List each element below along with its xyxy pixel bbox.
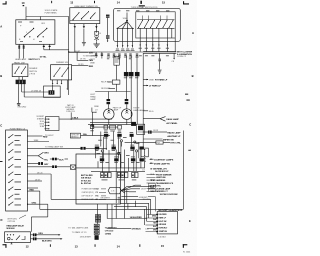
right row connector	[143, 131, 148, 133]
grid dash left	[0, 160, 3, 163]
svg-text:18 TAN PANEL LPS: 18 TAN PANEL LPS	[150, 167, 167, 170]
svg-text:HDLP RLY: HDLP RLY	[101, 82, 111, 84]
svg-text:TURN SIGNAL SWITCH POD: TURN SIGNAL SWITCH POD	[131, 6, 158, 9]
svg-text:OPTION: OPTION	[7, 221, 15, 223]
label instrument cluster	[177, 51, 193, 58]
blob right of bus	[131, 122, 135, 125]
grid tick top	[50, 1, 53, 3]
wire bend right	[22, 92, 61, 97]
PDC hex connector	[108, 187, 121, 194]
extra micro labels	[95, 138, 134, 163]
svg-text:13: 13	[70, 0, 73, 4]
PDC box	[76, 154, 120, 204]
security module label	[158, 209, 182, 212]
labels left of C4	[108, 81, 113, 83]
long bottom wire 2	[107, 227, 131, 229]
switch SW4	[70, 8, 100, 24]
grid tick top	[94, 1, 95, 3]
svg-text:18VT: 18VT	[90, 59, 96, 61]
row with breaker label box	[45, 135, 54, 137]
svg-text:ORG: ORG	[44, 152, 49, 154]
svg-text:FRONT MARKER: FRONT MARKER	[156, 173, 172, 176]
svg-text:18 BK/WT: 18 BK/WT	[37, 118, 44, 120]
wire to ground G1	[83, 29, 85, 43]
svg-text:HDLP SW: HDLP SW	[159, 221, 167, 223]
connector box C112	[44, 86, 61, 97]
cluster bottom connector group 1	[101, 173, 112, 178]
svg-text:18RD: 18RD	[90, 56, 96, 58]
connector pair right lamp	[125, 99, 129, 104]
headlamp delay module U1	[5, 232, 31, 243]
ground G1	[82, 42, 86, 44]
wire end bars	[17, 103, 21, 105]
lamp feed wire	[95, 91, 130, 93]
connector pair left lamp	[107, 99, 111, 104]
svg-text:C3: C3	[96, 192, 98, 194]
crossing connector symbol	[94, 37, 98, 40]
fp row 9	[27, 180, 42, 182]
U2 input rows	[146, 215, 158, 232]
pin labels SW1	[19, 23, 46, 41]
wire drop hi-beam left	[125, 56, 127, 73]
wire feed top	[26, 7, 69, 20]
svg-text:HTR CTRL: HTR CTRL	[170, 143, 181, 145]
splice S1	[126, 20, 128, 22]
ground G2	[93, 44, 100, 46]
wire down w connector	[107, 18, 109, 36]
right row 3	[143, 138, 162, 140]
svg-text:GROUND: GROUND	[159, 224, 167, 226]
lamp ground bus rows	[88, 122, 137, 127]
corner mark bottom-left	[3, 244, 7, 248]
grid tick bottom	[138, 244, 141, 247]
connector pairs under bus	[96, 52, 102, 59]
wire label rows above fuse panel	[37, 116, 45, 128]
svg-text:ORG/WHT: ORG/WHT	[100, 197, 110, 199]
svg-text:TO HEADLAMP SW: TO HEADLAMP SW	[45, 146, 63, 149]
pdc out row gray	[121, 196, 138, 198]
cluster blob row1	[104, 134, 134, 137]
fp row red feed	[27, 191, 39, 209]
fp row 7	[27, 166, 52, 168]
wire SW1 pin stubs right	[44, 44, 69, 50]
fp row 5 connector	[50, 158, 52, 160]
bottom bus extension	[40, 203, 149, 209]
cluster bottom connector group 3	[132, 173, 138, 178]
cluster bus lines	[76, 168, 145, 171]
breaker label box	[70, 133, 80, 138]
svg-text:TO PWR DIST: TO PWR DIST	[105, 228, 118, 230]
wire SW1 pin down left	[19, 44, 24, 58]
svg-text:POWER DISTRIB: POWER DISTRIB	[82, 189, 96, 191]
verticals to bottom rows	[107, 197, 135, 229]
label above pod	[131, 6, 158, 9]
fp row 8	[27, 174, 51, 199]
right edge vertical of harness	[142, 53, 144, 148]
svg-text:ORG: ORG	[32, 203, 37, 205]
svg-text:30A: 30A	[83, 133, 87, 136]
lamps out wire w connector	[159, 53, 161, 59]
internal row labels	[15, 135, 22, 205]
label 18 ORG	[100, 197, 150, 201]
svg-text:12: 12	[26, 244, 29, 248]
svg-text:FUSE PANEL: FUSE PANEL	[45, 12, 58, 15]
C203 input rows	[45, 119, 49, 129]
wire from splice note to long wire	[70, 112, 72, 119]
connector block C2	[16, 80, 26, 84]
bottom right destination block	[150, 167, 169, 173]
wires pod to cluster bus	[140, 38, 175, 52]
svg-text:C: C	[189, 122, 191, 126]
svg-text:B12: B12	[96, 189, 99, 191]
wire down to bus	[74, 27, 76, 52]
text block splice note	[65, 104, 75, 113]
svg-text:ORG: ORG	[38, 233, 43, 235]
svg-text:B: B	[192, 74, 194, 78]
switch SW3	[51, 65, 72, 80]
svg-text:BLK: BLK	[59, 159, 64, 161]
svg-text:GLOVE BOX LP: GLOVE BOX LP	[155, 171, 169, 173]
corner mark top-right	[183, 1, 189, 4]
tiny labels under cluster bus	[139, 54, 169, 57]
ground label	[17, 107, 26, 109]
harness box right edge	[145, 131, 184, 210]
svg-text:CENTER (PDC): CENTER (PDC)	[82, 192, 95, 194]
wire drop third	[136, 56, 138, 73]
fp row org loop to delay module	[27, 204, 47, 232]
wire row right 3	[72, 65, 89, 67]
contacts SW2	[15, 67, 26, 73]
labels near E1	[95, 107, 122, 114]
svg-text:A: A	[0, 25, 2, 29]
left headlamp E1	[104, 109, 115, 120]
svg-text:DKBL: DKBL	[152, 216, 156, 218]
svg-text:18 VT: 18 VT	[35, 179, 41, 181]
contacts SW4	[73, 12, 96, 20]
long bottom wire 1	[107, 218, 147, 220]
wire row right 1	[69, 52, 89, 54]
svg-text:B: B	[0, 74, 2, 78]
svg-text:TAIL/MARKER LPS: TAIL/MARKER LPS	[156, 182, 174, 185]
svg-text:18 RD/WT: 18 RD/WT	[37, 116, 44, 118]
svg-text:RADIO LAMP: RADIO LAMP	[167, 131, 181, 134]
svg-text:CONN C110: CONN C110	[66, 111, 75, 113]
label right short L wire	[94, 106, 100, 108]
box labels	[90, 130, 121, 131]
svg-text:SIDE MARKERS C7: SIDE MARKERS C7	[150, 190, 167, 193]
svg-text:RT PARK LP: RT PARK LP	[155, 78, 168, 81]
pod bottom tiny text row	[116, 49, 135, 52]
wire SW2 to connector	[19, 77, 22, 80]
connector block C203	[46, 117, 60, 131]
svg-text:13: 13	[75, 245, 78, 249]
svg-text:COURTESY LAMPS: COURTESY LAMPS	[154, 158, 174, 161]
svg-text:A/C PANEL: A/C PANEL	[166, 122, 178, 125]
stub row right	[143, 110, 148, 112]
wire C203 out long	[59, 118, 112, 120]
group labels	[102, 179, 137, 182]
svg-text:18LG: 18LG	[90, 52, 95, 54]
stacked mini connectors	[94, 224, 99, 234]
fp row 1	[27, 135, 42, 137]
wire CR down long	[130, 76, 132, 122]
svg-text:DIMMER SW: DIMMER SW	[56, 62, 68, 64]
right row park lamp 1	[143, 79, 148, 81]
svg-text:DASH LAMP: DASH LAMP	[166, 118, 179, 121]
svg-text:18BK: 18BK	[34, 140, 40, 142]
right arrow row 2	[151, 162, 153, 164]
grid tick bold top	[139, 1, 145, 7]
turn signal switch pod outer box	[114, 8, 181, 41]
svg-text:GRY/BLK: GRY/BLK	[132, 228, 142, 230]
svg-text:C: C	[0, 123, 2, 127]
fp row 10	[27, 187, 38, 189]
svg-text:CTR C100: CTR C100	[105, 231, 114, 233]
svg-text:C16 BLK: C16 BLK	[158, 237, 167, 239]
wire down from C2	[19, 84, 25, 103]
label above SW2	[14, 61, 25, 64]
label solid state fuse	[45, 9, 58, 14]
cluster blob row2	[95, 147, 144, 150]
contacts SW3	[54, 68, 68, 76]
relay K1	[116, 55, 118, 58]
U2 internal rows	[159, 214, 169, 233]
svg-text:HEADLAMP: HEADLAMP	[15, 58, 27, 61]
fuse panel block	[6, 130, 28, 211]
connector blob inside C112	[49, 91, 54, 95]
svg-text:E: E	[189, 219, 191, 223]
svg-text:18 YEL: 18 YEL	[40, 57, 48, 59]
label headlamp dimmer	[74, 5, 98, 8]
fuse F9	[95, 31, 99, 35]
turn signal switch inner box	[136, 12, 175, 38]
hex fan wires	[121, 185, 149, 193]
svg-text:DOME LAMP FD: DOME LAMP FD	[154, 162, 171, 165]
U1 output row 1	[31, 234, 33, 236]
svg-text:18LG: 18LG	[149, 111, 154, 113]
delay module labels	[7, 219, 18, 223]
security module U2	[157, 212, 177, 234]
wire drop to left headlamp	[107, 92, 109, 100]
arrows under pod wires	[139, 45, 168, 47]
svg-text:15: 15	[162, 0, 165, 4]
cluster verticals	[96, 132, 141, 219]
ground G3	[158, 70, 162, 72]
right row park lamp 2	[143, 85, 148, 87]
left lamp label block	[90, 94, 96, 101]
wire C5 down long	[136, 76, 138, 124]
fp row 6	[27, 163, 38, 165]
switch contacts inner box	[139, 21, 174, 28]
stacked mini connectors 2	[96, 215, 101, 223]
svg-text:HORN RLY: HORN RLY	[159, 228, 169, 230]
svg-text:18GY: 18GY	[141, 189, 147, 191]
svg-text:2 POS: 2 POS	[29, 73, 36, 75]
PDC gray rows	[82, 189, 96, 202]
wire drop to right headlamp	[126, 92, 128, 100]
label under bus	[83, 55, 99, 57]
svg-text:18 ORG: 18 ORG	[143, 199, 151, 201]
SW3 bottom pins	[53, 80, 68, 89]
dark junction box	[137, 124, 145, 134]
dark blob below stacks	[95, 235, 99, 240]
svg-text:BLK/ORG: BLK/ORG	[42, 240, 52, 242]
fuse F14 on right vertical	[141, 148, 148, 157]
boxed labels in destination block	[148, 183, 155, 185]
wire row right 2	[77, 52, 88, 60]
svg-text:18 BLK/YEL: 18 BLK/YEL	[150, 186, 162, 188]
wire E1 down	[108, 119, 110, 124]
inner pin stubs up	[143, 16, 168, 20]
fan wires from splice	[117, 21, 132, 28]
svg-text:14 BLK/RED: 14 BLK/RED	[130, 216, 143, 219]
svg-text:GRY: GRY	[44, 164, 49, 166]
svg-text:TO TAIL LAMPS 14BK: TO TAIL LAMPS 14BK	[68, 227, 89, 230]
svg-text:A: A	[192, 31, 194, 35]
fp row 3	[27, 147, 80, 149]
svg-text:14: 14	[117, 244, 120, 248]
grid tick bottom	[94, 244, 97, 247]
wire into stacks	[97, 204, 99, 224]
svg-text:18BK: 18BK	[94, 106, 100, 108]
row above security box	[160, 194, 178, 196]
wires exiting pod bottom	[117, 28, 132, 47]
svg-text:GROUND: GROUND	[17, 107, 26, 109]
wire SW3 down	[52, 84, 54, 86]
svg-text:18 RD: 18 RD	[78, 64, 84, 66]
blob labels	[124, 76, 139, 79]
svg-text:IGN SW A21: IGN SW A21	[81, 177, 91, 180]
headlamp switch SW1	[16, 20, 55, 45]
wire label column left	[90, 52, 96, 65]
label lt green	[31, 90, 42, 92]
stacked connector blobs column	[106, 15, 110, 18]
label under fuse	[141, 159, 147, 172]
svg-text:IGN FEED: IGN FEED	[159, 214, 168, 216]
inner box wires down	[140, 28, 172, 38]
grid dash right	[186, 99, 189, 102]
svg-text:HEADLAMP: HEADLAMP	[133, 109, 145, 112]
SW4 bottom pins	[75, 24, 97, 33]
fp row 2	[27, 141, 49, 143]
svg-text:15: 15	[161, 244, 164, 248]
inner bus lines	[137, 20, 175, 29]
wire E2 down	[126, 119, 128, 124]
svg-text:18BK: 18BK	[149, 79, 155, 81]
bottom-left black rows	[105, 228, 118, 236]
cluster blob row3	[100, 158, 144, 161]
svg-text:18 TN: 18 TN	[80, 59, 86, 61]
svg-text:SWITCH C1: SWITCH C1	[28, 59, 40, 61]
svg-text:TO PARK LP C9: TO PARK LP C9	[72, 231, 88, 234]
svg-text:LAMPS B6: LAMPS B6	[156, 176, 166, 179]
right arrow row 1	[151, 158, 153, 160]
svg-text:14 5A: 14 5A	[141, 160, 147, 163]
right long row with fuse label	[125, 141, 156, 143]
svg-text:ASHTRAY LP: ASHTRAY LP	[167, 135, 181, 138]
label headlamp switch	[15, 57, 47, 61]
PDC text block	[81, 174, 93, 185]
svg-text:LAMP: LAMP	[113, 109, 119, 112]
svg-text:WIPER SW: WIPER SW	[163, 139, 174, 141]
svg-text:18 LG: 18 LG	[37, 172, 43, 174]
grid dash right	[185, 93, 188, 96]
inline fuse box	[70, 165, 75, 169]
svg-text:REAR HARNESS: REAR HARNESS	[150, 179, 166, 182]
svg-text:LEFT SIDE OF: LEFT SIDE OF	[82, 196, 93, 198]
corner mark bottom-right	[183, 244, 188, 248]
micro labels under bus pairs	[107, 57, 139, 60]
svg-text:91 1004: 91 1004	[183, 252, 191, 254]
svg-text:B+ DIST A4: B+ DIST A4	[81, 182, 91, 185]
right column stub w arrow	[173, 53, 175, 58]
U1 output row 2	[31, 238, 33, 240]
svg-text:START EN: START EN	[159, 230, 168, 233]
long wire down left of dimmer	[68, 17, 70, 96]
svg-text:ST RLY A31: ST RLY A31	[81, 179, 91, 182]
svg-text:LT PARK LP: LT PARK LP	[149, 85, 162, 88]
svg-text:4 BLK: 4 BLK	[72, 116, 79, 119]
right headlamp E2	[122, 109, 133, 120]
wiper switch SW3 label	[56, 62, 68, 64]
pod connector labels	[116, 48, 134, 51]
internal pins fuse panel	[8, 137, 9, 206]
wrap-down verticals to security module	[145, 199, 151, 225]
svg-text:F31: F31	[96, 196, 99, 198]
svg-text:TO HDLP: TO HDLP	[45, 135, 54, 137]
inline connector marks	[18, 46, 25, 49]
tiny pin label row under pod top	[117, 9, 169, 12]
dimmer switch SW2	[12, 64, 28, 77]
svg-text:14: 14	[117, 1, 120, 5]
fp fork row	[27, 152, 43, 159]
grid tick bottom	[49, 244, 52, 247]
dash bus line	[69, 51, 143, 53]
bus in pod	[117, 27, 135, 29]
svg-text:10: 10	[22, 1, 25, 5]
wire drop hi-beam right	[130, 56, 132, 73]
connector blob C5	[135, 72, 139, 76]
svg-text:RED: RED	[89, 66, 94, 68]
svg-text:D: D	[1, 218, 3, 222]
bottom center gray rows	[68, 227, 92, 239]
svg-text:18 PNK DOOR SW: 18 PNK DOOR SW	[160, 194, 178, 196]
wire CL down to lamp feed	[125, 76, 127, 92]
svg-text:18BK: 18BK	[90, 63, 96, 65]
svg-text:LAMP: LAMP	[90, 98, 96, 101]
svg-text:MODULE: MODULE	[7, 228, 16, 230]
svg-text:LICENSE LAMP: LICENSE LAMP	[156, 187, 171, 190]
svg-text:BATT A0 RED: BATT A0 RED	[81, 174, 93, 177]
instrument cluster bus thick	[143, 52, 176, 54]
right row fork	[143, 117, 165, 122]
parallel bus wires	[51, 199, 151, 206]
svg-text:RED: RED	[30, 190, 35, 192]
svg-text:18 BLK/WHT: 18 BLK/WHT	[80, 237, 92, 239]
labels near E2	[133, 108, 145, 112]
pod column labels	[139, 47, 169, 50]
svg-text:14 RED: 14 RED	[105, 233, 112, 236]
corner mark top-left	[3, 1, 7, 4]
switch contacts inside SW1	[25, 29, 47, 37]
svg-text:18 LG: 18 LG	[40, 121, 45, 123]
cluster bottom connector group 2	[117, 173, 128, 178]
connector box C4	[112, 80, 120, 84]
label fuse panel	[10, 127, 26, 130]
connector blob CL	[124, 72, 128, 76]
svg-text:CONN C2: CONN C2	[177, 56, 187, 58]
label dimmer switch	[29, 68, 38, 75]
